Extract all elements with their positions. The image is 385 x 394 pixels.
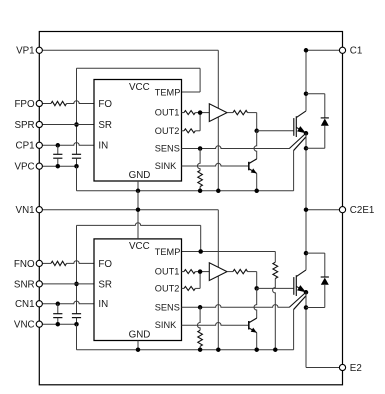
node SENS shunt tap 2	[198, 305, 203, 310]
wire GND pin U1 to bus	[137, 181, 139, 191]
node bus-VN1 junction	[136, 207, 141, 212]
resistor R26 (TEMP pulldown)	[274, 251, 276, 262]
svg-text:FNO: FNO	[14, 259, 35, 270]
svg-text:C1: C1	[350, 46, 363, 57]
svg-text:GND: GND	[129, 329, 151, 340]
wire TEMP net upper run U2	[182, 251, 276, 253]
diode D2 (freewheel)	[306, 253, 329, 307]
driver IC U1	[94, 80, 182, 182]
resistor R13 (OUT2)	[182, 130, 185, 132]
terminal FNO	[14, 259, 42, 270]
wire VNC rail	[42, 323, 76, 325]
node shunt-bus junction 2	[198, 347, 203, 352]
wire T2 emitter vertical	[305, 292, 307, 367]
svg-text:VP1: VP1	[16, 46, 35, 57]
wire left vertical (SPR net) section 1	[76, 68, 78, 124]
wire FPO input	[42, 103, 51, 105]
svg-text:VCC: VCC	[129, 82, 150, 93]
wire SENS line 2	[182, 305, 290, 308]
node C2E1 junction	[304, 207, 309, 212]
resistor R15 (sense shunt)	[197, 149, 200, 171]
resistor R23 (OUT2)	[182, 287, 185, 289]
node gate 2	[254, 286, 259, 291]
wire T2 collector vertical	[305, 210, 307, 270]
svg-text:SR: SR	[98, 279, 112, 290]
buffer amplifier A1	[209, 104, 227, 122]
wire VPC down to ground bus 1	[76, 166, 78, 191]
wire VP1 supply feed to buffer A1	[42, 49, 218, 51]
svg-text:GND: GND	[129, 170, 151, 181]
wire gate vertical to Q1 collector (hops SENS)	[254, 131, 257, 159]
wire CP1 to IN pin (hops left vertical)	[42, 143, 94, 146]
node SR junction 1	[74, 122, 79, 127]
node diode tap emitter 2	[304, 305, 309, 310]
resistor R22 (OUT1)	[182, 271, 185, 273]
svg-text:SNR: SNR	[14, 279, 35, 290]
IGBT T2	[289, 270, 306, 310]
wire FPO to FO pin (hops left vertical)	[67, 101, 95, 104]
terminal E2	[339, 363, 361, 374]
wire gate node down 1	[256, 113, 258, 131]
svg-text:E2: E2	[350, 363, 362, 374]
wire ground bus section 2	[77, 349, 294, 351]
svg-text:SINK: SINK	[155, 161, 177, 171]
capacitor C2a (CN1-VNC)	[57, 304, 59, 314]
ground bus riser to emitter 2	[293, 310, 295, 350]
wire C1 to T1 collector	[306, 49, 339, 51]
wire VPC rail	[42, 165, 76, 167]
node IN filter tap 1	[56, 143, 61, 148]
terminal C1	[339, 46, 362, 57]
node T1 emitter	[304, 131, 309, 136]
capacitor C2b (SNR-VNC)	[72, 313, 81, 315]
wire OUT2 tie to OUT1 1	[199, 113, 201, 131]
wire CN1 to IN pin (hops left vertical)	[42, 301, 94, 304]
terminal VNC	[14, 320, 42, 331]
wire FNO input	[42, 262, 51, 264]
svg-text:TEMP: TEMP	[155, 87, 181, 97]
svg-text:IN: IN	[98, 141, 108, 152]
svg-text:TEMP: TEMP	[155, 247, 181, 257]
svg-text:SR: SR	[98, 120, 112, 131]
wire T1 collector vertical	[305, 50, 307, 111]
node TEMP wire junction 2	[198, 249, 203, 254]
node GND-bus junction 1	[136, 189, 141, 194]
buffer amplifier A2	[209, 263, 227, 281]
wire FNO to FO pin (hops left vertical)	[67, 261, 95, 264]
capacitor C1b (SPR-VPC)	[72, 153, 81, 155]
resistor R21 (FNO series)	[51, 261, 67, 265]
transistor Q2 (gate clamp NPN)	[249, 318, 257, 333]
terminal VP1	[16, 46, 42, 57]
wire gate to IGBT 1	[257, 130, 294, 132]
wire gate node down 2	[256, 272, 258, 289]
node buffer input 2	[198, 269, 203, 274]
node T2 emitter	[304, 290, 309, 295]
node Q2 emitter-bus junction	[254, 347, 259, 352]
node buffer input 1	[198, 110, 203, 115]
wire T1 emitter vertical	[305, 133, 307, 209]
node buffer ground junction 1	[216, 189, 221, 194]
svg-text:SENS: SENS	[155, 302, 180, 312]
svg-text:FPO: FPO	[14, 99, 35, 110]
node diode tap emitter 1	[304, 146, 309, 151]
svg-text:CN1: CN1	[15, 299, 35, 310]
node gate 1	[254, 129, 259, 134]
wire TEMP net upper run U1	[182, 91, 201, 93]
terminal FPO	[14, 99, 42, 110]
wire left vertical (SPR net) section 2	[76, 225, 78, 284]
terminal VN1	[16, 205, 43, 216]
resistor R11 (FPO series)	[51, 101, 67, 105]
node C1 junction	[304, 48, 309, 53]
wire ground bus section 1	[77, 190, 294, 192]
node Q1 emitter-bus junction	[254, 189, 259, 194]
node TEMP resistor bus junction	[273, 347, 278, 352]
wire SPR to SR pin	[42, 124, 94, 126]
svg-text:FO: FO	[98, 99, 112, 110]
terminal SNR	[14, 279, 42, 290]
wire VN1 supply feed to buffer A2	[42, 209, 218, 211]
terminal C2E1	[339, 205, 374, 216]
resistor R24 (gate drive)	[227, 271, 233, 273]
svg-text:VN1: VN1	[16, 205, 35, 216]
node diode tap collector 1	[304, 91, 309, 96]
wire GND pin U2 to bus	[137, 341, 139, 350]
terminal VPC	[14, 162, 42, 173]
node buffer ground junction 2	[216, 347, 221, 352]
resistor R12 (OUT1)	[182, 112, 185, 114]
driver IC U2	[94, 239, 182, 341]
svg-text:IN: IN	[98, 299, 108, 310]
node shunt-bus junction 1	[198, 189, 203, 194]
svg-text:VCC: VCC	[129, 241, 150, 252]
svg-text:SPR: SPR	[14, 120, 34, 131]
wire SINK to Q2 base	[182, 323, 249, 326]
wire gate to IGBT 2	[257, 287, 294, 289]
svg-text:FO: FO	[98, 259, 112, 270]
wire SNR to SR pin	[42, 283, 94, 285]
svg-text:OUT2: OUT2	[155, 126, 180, 136]
wire VNC down to ground bus 2	[76, 324, 78, 350]
svg-text:SINK: SINK	[155, 320, 177, 330]
terminal CN1	[15, 299, 42, 310]
svg-text:SENS: SENS	[155, 144, 180, 154]
node SENS shunt tap 1	[198, 146, 203, 151]
svg-text:OUT1: OUT1	[155, 267, 180, 277]
node GND-bus junction 2	[136, 347, 141, 352]
wire Q2 emitter to bus	[256, 333, 258, 350]
diode D1 (freewheel)	[306, 94, 329, 149]
svg-text:OUT2: OUT2	[155, 283, 180, 293]
resistor R14 (gate drive)	[227, 112, 233, 114]
svg-text:VNC: VNC	[14, 320, 35, 331]
wire VPC bus to VN1 and U2 VCC	[137, 191, 139, 239]
terminal CP1	[16, 141, 43, 152]
IGBT T1	[289, 111, 306, 151]
terminal SPR	[14, 120, 42, 131]
node SR junction 2	[74, 282, 79, 287]
wire C2E1 midpoint tap	[306, 209, 339, 211]
svg-text:VPC: VPC	[14, 162, 34, 173]
svg-text:OUT1: OUT1	[155, 108, 180, 118]
svg-text:CP1: CP1	[16, 141, 35, 152]
ground bus riser to emitter 1	[293, 151, 295, 191]
wire SINK to Q1 base	[182, 163, 249, 166]
module package outline	[39, 32, 342, 385]
node IN filter tap 2	[56, 302, 61, 307]
wire gate vertical to Q2 collector (hops SENS)	[254, 288, 257, 318]
capacitor C1a (CP1-VPC)	[57, 145, 59, 154]
transistor Q1 (gate clamp NPN)	[249, 159, 257, 174]
wire OUT2 tie to OUT1 2	[199, 272, 201, 289]
wire SENS line 1	[182, 146, 290, 149]
wire E2 to T2 emitter	[306, 367, 339, 369]
resistor R25 (sense shunt)	[197, 307, 200, 330]
svg-text:C2E1: C2E1	[350, 205, 375, 216]
wire Q1 emitter to bus	[256, 173, 258, 190]
node diode tap collector 2	[304, 251, 309, 256]
